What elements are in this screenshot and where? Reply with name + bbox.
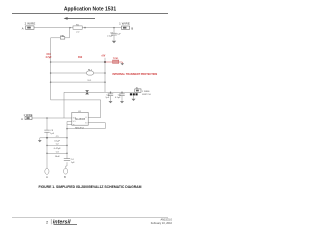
svg-text:ISL28005: ISL28005 <box>75 118 86 121</box>
svg-text:MSOP-8: MSOP-8 <box>75 127 84 129</box>
svg-text:A: A <box>21 117 23 121</box>
svg-text:2 WIRE: 2 WIRE <box>25 21 36 25</box>
svg-text:1µF: 1µF <box>71 162 75 164</box>
svg-text:0.47µF: 0.47µF <box>54 148 62 150</box>
svg-text:Application Note 1531: Application Note 1531 <box>64 7 116 13</box>
svg-text:2.2µF: 2.2µF <box>107 35 113 37</box>
svg-text:INTERNAL TRANSIENT PROTECTION: INTERNAL TRANSIENT PROTECTION <box>113 73 158 76</box>
svg-text:0.1µF: 0.1µF <box>54 140 60 142</box>
svg-text:A0: A0 <box>73 123 75 126</box>
svg-text:FIGURE 1. SIMPLIFIED ISL28005E: FIGURE 1. SIMPLIFIED ISL28005EVAL1Z SCHE… <box>39 185 142 189</box>
svg-text:1 WIRE: 1 WIRE <box>142 91 150 93</box>
svg-text:February 10, 2010: February 10, 2010 <box>151 221 173 225</box>
svg-text:V+: V+ <box>85 117 87 119</box>
svg-text:B: B <box>131 26 133 30</box>
svg-text:SWITCH: SWITCH <box>142 94 151 96</box>
svg-text:1µF: 1µF <box>50 133 54 135</box>
svg-text:R12: R12 <box>78 57 83 59</box>
svg-text:A: A <box>22 26 24 30</box>
svg-text:1µF: 1µF <box>105 97 109 99</box>
svg-text:0.1µF: 0.1µF <box>115 97 121 99</box>
svg-text:SCL: SCL <box>73 121 76 123</box>
svg-text:+5V: +5V <box>101 55 106 57</box>
svg-text:1 WIRE: 1 WIRE <box>119 21 130 25</box>
svg-text:C10: C10 <box>47 54 52 56</box>
svg-text:4.7µF: 4.7µF <box>46 56 53 59</box>
svg-text:10nF: 10nF <box>55 156 61 158</box>
